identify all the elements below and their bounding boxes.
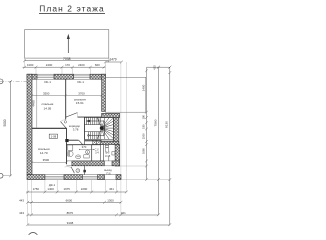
left axis circle: [0, 79, 3, 84]
boxed label 1-08: [49, 134, 57, 138]
svg-text:1675: 1675: [63, 187, 70, 191]
svg-text:180: 180: [142, 124, 146, 129]
terrace up arrow: [67, 37, 69, 54]
vent circle symbol in strip: [76, 169, 80, 173]
stair direction arrow: [88, 121, 105, 136]
svg-text:8675: 8675: [67, 211, 74, 215]
terrace right rectangle: [105, 77, 145, 112]
partition corridor|room3: [66, 128, 68, 140]
svg-text:3.78: 3.78: [73, 128, 79, 132]
svg-text:2290: 2290: [81, 187, 88, 191]
right exterior wall of main block: [102, 74, 106, 111]
stair newel: [100, 126, 104, 130]
svg-text:1400: 1400: [47, 187, 54, 191]
svg-text:2400: 2400: [78, 63, 85, 67]
door room2 leaf: [66, 113, 77, 117]
wall below stair: [101, 142, 119, 145]
left vertical dim line: [9, 80, 12, 177]
svg-text:1000: 1000: [27, 63, 34, 67]
door room3-strip: [65, 167, 75, 174]
svg-text:180: 180: [142, 114, 146, 119]
annex east wall: [115, 145, 120, 166]
winder treads fan: [97, 118, 101, 129]
chain extension lines to wall: [25, 58, 109, 74]
svg-text:2460: 2460: [142, 84, 146, 91]
extension line y=179.6 right: [121, 179, 171, 181]
bottom row4: [26, 223, 171, 226]
black column at partition: [65, 139, 68, 142]
bottom row1 chain: [26, 191, 127, 194]
extension line x=126.3: [125, 62, 127, 192]
bottom row3: [26, 213, 160, 216]
bath fixtures: [68, 145, 89, 159]
door room1 leaf: [61, 120, 67, 128]
svg-text:6600: 6600: [66, 198, 73, 202]
vent shafts: [92, 140, 100, 144]
svg-text:7560: 7560: [153, 119, 157, 126]
partition room3|strip: [66, 142, 68, 164]
interior partition room1|room3: [32, 127, 67, 129]
dim 1479 top right: [104, 61, 123, 64]
svg-text:9108: 9108: [67, 221, 74, 225]
svg-text:461: 461: [109, 187, 114, 191]
svg-text:1500: 1500: [142, 133, 146, 139]
svg-text:2400: 2400: [46, 63, 53, 67]
svg-text:План 2 этажа: План 2 этажа: [39, 3, 104, 13]
right chain dim line: [145, 68, 148, 182]
interior dim room1 vertical 4460: [36, 79, 38, 128]
svg-text:3.15: 3.15: [105, 154, 111, 158]
svg-text:3500: 3500: [43, 158, 50, 162]
su door leaf: [108, 156, 110, 161]
axis circle bottom: [28, 233, 38, 240]
bottom exterior wall segments: [27, 175, 45, 180]
svg-text:425: 425: [152, 65, 156, 70]
su fixtures: [105, 145, 115, 155]
lower flight treads: [88, 132, 90, 140]
bottom pier: [116, 175, 121, 180]
svg-text:15.61: 15.61: [76, 101, 84, 105]
svg-text:660: 660: [95, 63, 100, 67]
svg-text:7038: 7038: [63, 57, 71, 61]
svg-text:170: 170: [65, 63, 70, 67]
svg-text:1300: 1300: [107, 198, 114, 202]
dim 7038 top: [23, 59, 110, 62]
svg-text:8130: 8130: [165, 121, 169, 128]
balcony door ДК-1 gap: [45, 175, 64, 180]
right dim 8130: [168, 66, 171, 225]
bath north wall: [67, 144, 101, 146]
window ОК-1 right: [74, 74, 91, 79]
left axis dash line: [0, 80, 27, 82]
su west partition: [101, 145, 104, 161]
bottom extension lines: [28, 180, 117, 225]
dim 425 top right: [147, 66, 172, 74]
extension line y=166 right: [120, 165, 147, 167]
svg-text:3500: 3500: [43, 91, 50, 95]
svg-text:1479: 1479: [109, 58, 116, 62]
extension line y=112.2 tick: [145, 111, 148, 114]
small door mark circle: [64, 121, 66, 123]
svg-text:1750: 1750: [33, 187, 40, 191]
door gap bottom second: [82, 175, 97, 180]
svg-text:370: 370: [82, 145, 87, 149]
bath south wall: [72, 161, 104, 166]
right dim 7560: [157, 66, 160, 215]
door gap to su: [104, 161, 112, 166]
interior dim rooms1-2 line: [31, 94, 103, 96]
stairwell east wall: [113, 118, 119, 145]
svg-text:3.4: 3.4: [95, 152, 99, 155]
svg-text:443: 443: [19, 211, 24, 215]
partition room2|corridor: [78, 116, 102, 118]
interior dim room3: [31, 161, 68, 163]
svg-text:14.70: 14.70: [40, 151, 48, 155]
svg-text:П.6: П.6: [106, 171, 111, 175]
partition corridor south: [69, 139, 79, 141]
svg-text:461: 461: [121, 211, 126, 215]
interior partition room1|room2: [65, 79, 67, 119]
window ОК-1 left: [37, 74, 54, 79]
svg-text:1-08: 1-08: [51, 134, 57, 138]
svg-text:ОК-1: ОК-1: [44, 80, 51, 84]
svg-text:3700: 3700: [78, 91, 85, 95]
annex north wall: [102, 113, 120, 117]
extension line x=120.9: [120, 62, 122, 215]
opening below su: [105, 175, 117, 180]
top chain dimension line: [23, 66, 106, 69]
svg-text:5000: 5000: [3, 119, 7, 126]
left exterior wall: [27, 74, 32, 174]
strip partition and pier: [83, 166, 85, 175]
terrace rectangle above plan: [25, 30, 109, 58]
svg-text:1660: 1660: [142, 148, 146, 154]
upper flight treads: [86, 118, 88, 125]
svg-text:4460: 4460: [32, 100, 36, 107]
svg-text:14.05: 14.05: [44, 107, 52, 111]
corridor|stairwell line: [84, 118, 86, 140]
bottom row2: [26, 201, 122, 204]
svg-text:443: 443: [19, 198, 24, 202]
svg-text:ОК-1: ОК-1: [77, 80, 84, 84]
top exterior wall segments: [27, 74, 37, 79]
bath partition: [91, 145, 93, 161]
door corridor-bath: [79, 140, 85, 145]
